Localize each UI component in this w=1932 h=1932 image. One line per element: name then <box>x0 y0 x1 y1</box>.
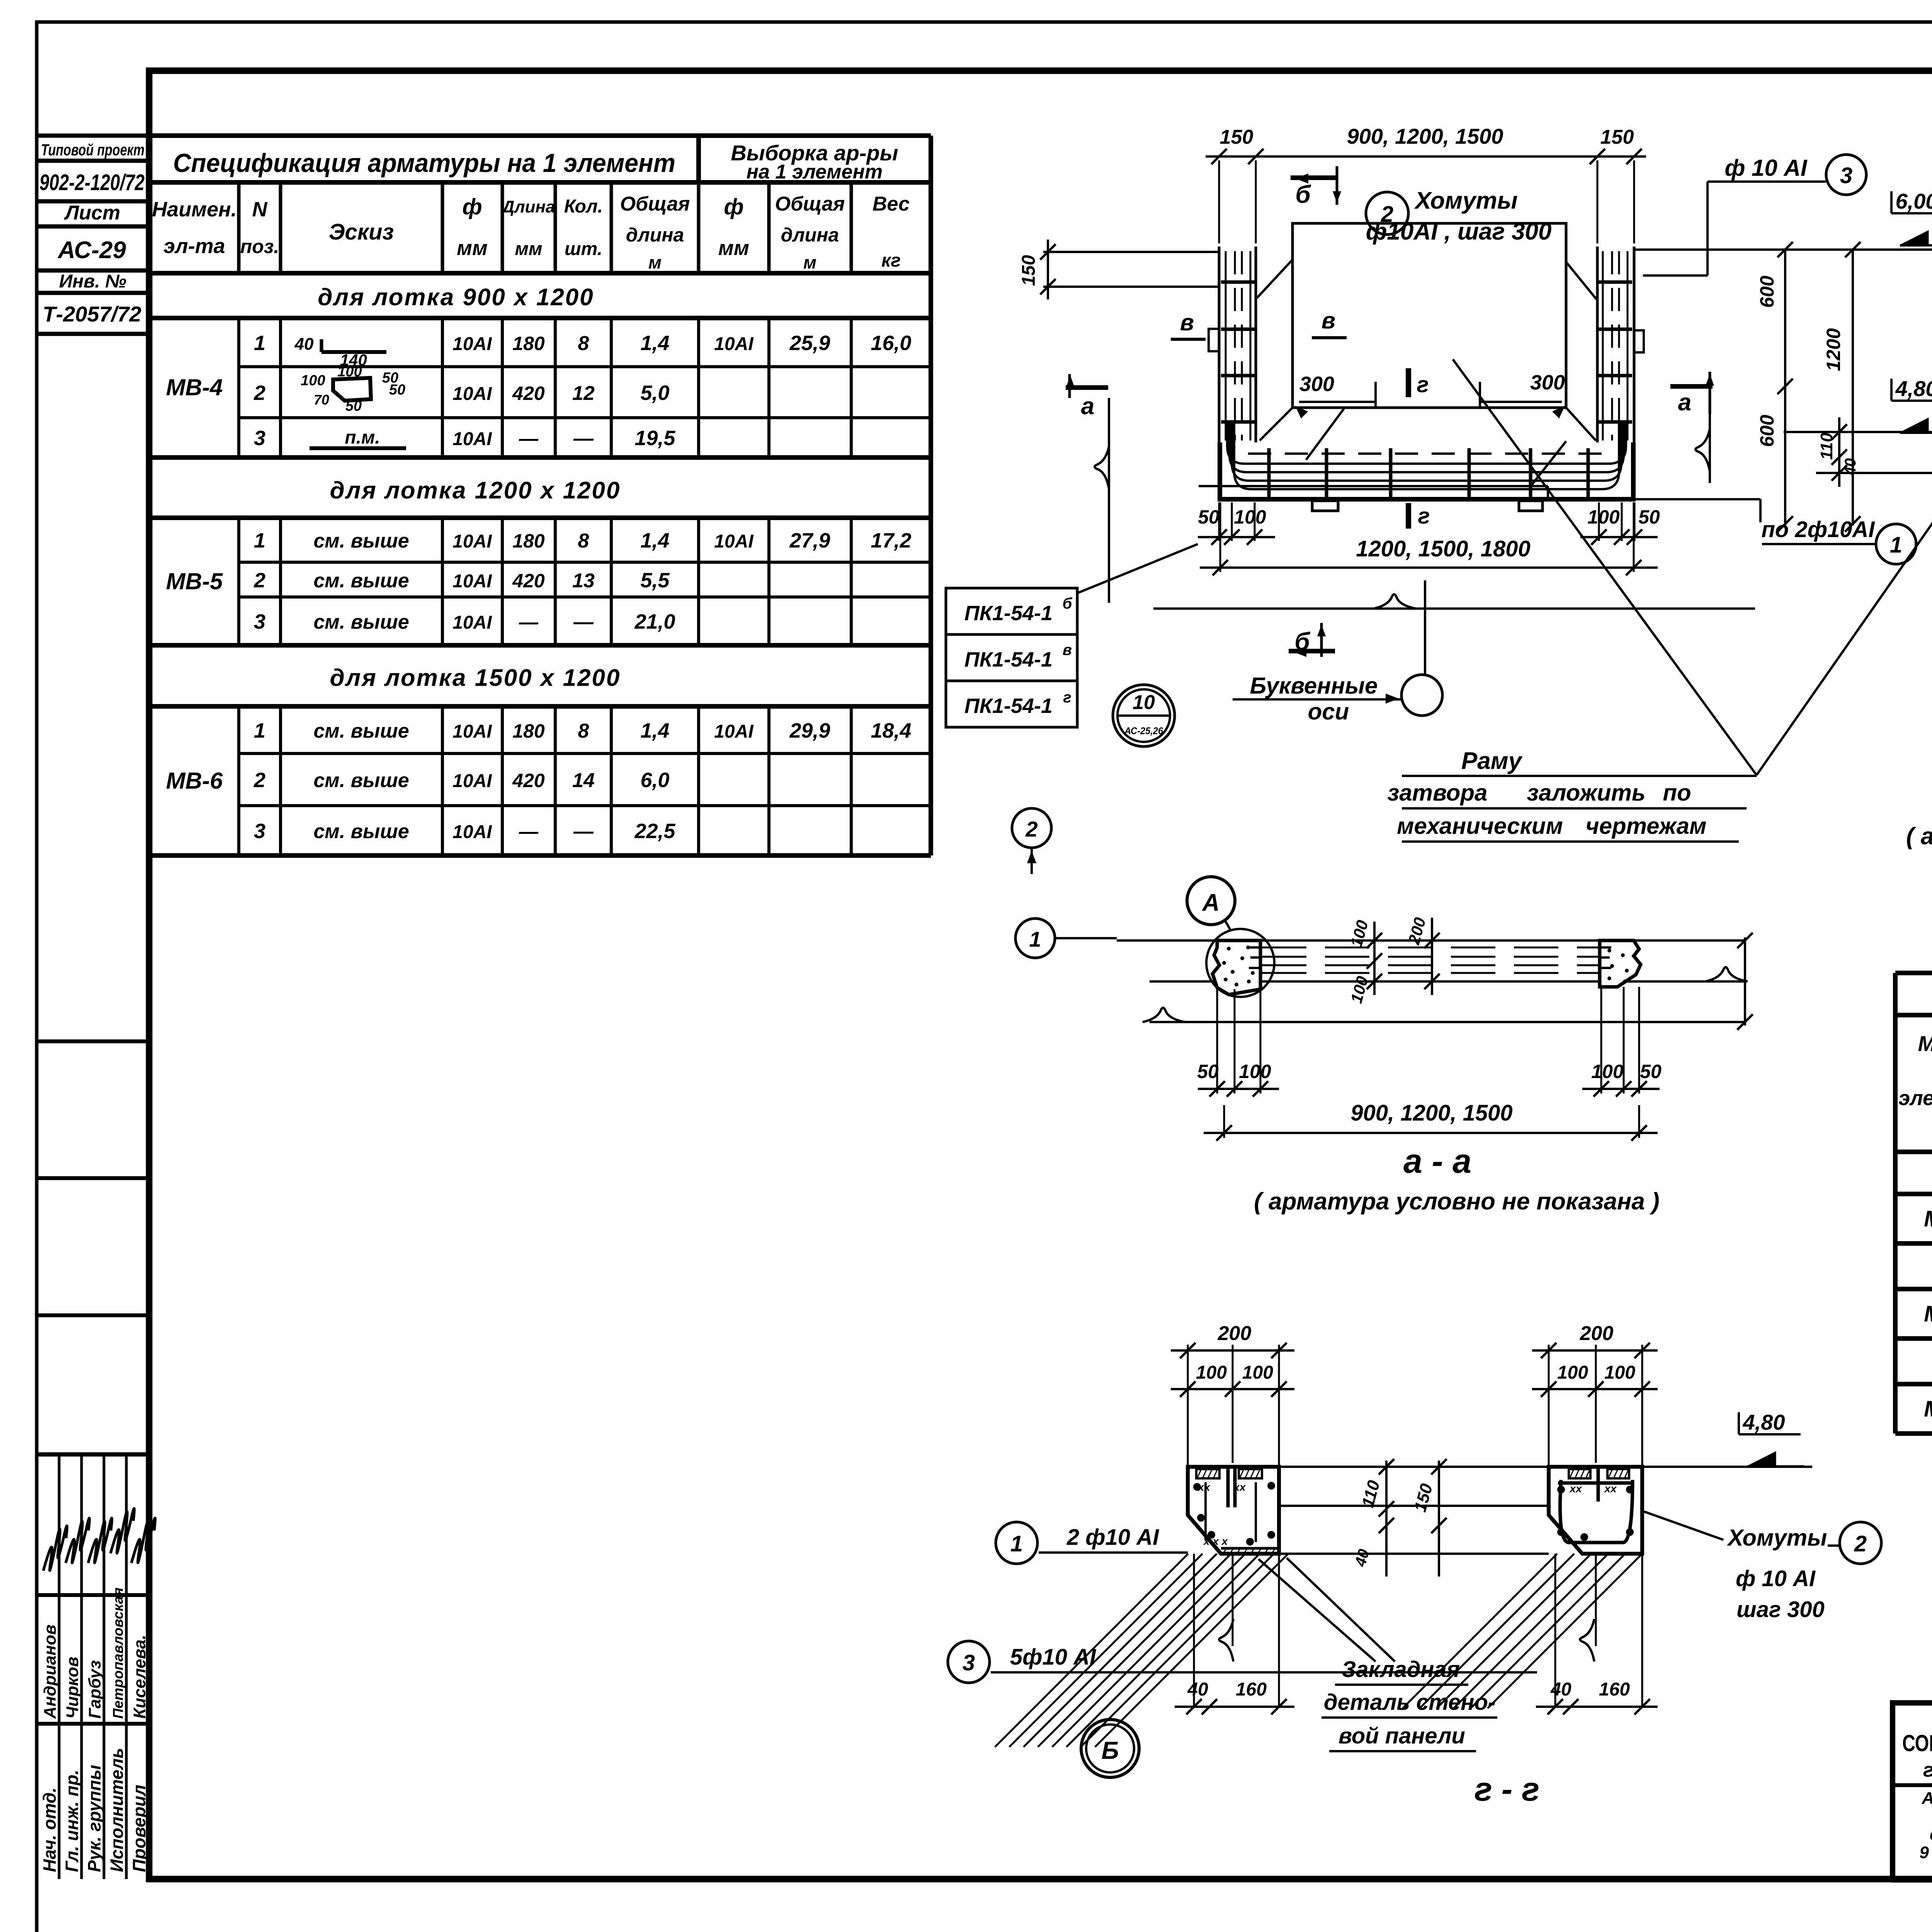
svg-text:150: 150 <box>1220 126 1253 148</box>
svg-text:3: 3 <box>254 427 265 450</box>
plan right wall stirrups <box>1598 281 1632 284</box>
svg-text:100: 100 <box>301 372 325 389</box>
svg-text:2: 2 <box>253 769 265 792</box>
plan long break line <box>1153 607 1755 610</box>
svg-text:100: 100 <box>1604 1362 1635 1383</box>
svg-text:902-2-120/72: 902-2-120/72 <box>39 170 145 195</box>
svg-text:ПК1-54-1: ПК1-54-1 <box>964 648 1053 671</box>
plan bottom dims 50-100 <box>1218 502 1220 541</box>
g-g pos1 2f10AI <box>996 1522 1037 1564</box>
svg-text:3: 3 <box>963 1650 975 1675</box>
svg-text:кг: кг <box>881 250 901 271</box>
svg-text:( арматура условно не по: ( арматура условно не показана ) <box>1254 1188 1659 1215</box>
svg-text:механическим: механическим <box>1397 813 1563 839</box>
dim chain 110-40 <box>1784 431 1932 433</box>
svg-text:п.м.: п.м. <box>345 427 380 448</box>
svg-text:2: 2 <box>253 569 265 592</box>
g-g pos3 5f10AI <box>948 1641 990 1683</box>
svg-text:см. выше: см. выше <box>313 820 409 843</box>
materials consumption table <box>1895 971 1932 975</box>
MB-4 sketch row2 plate <box>333 378 371 401</box>
level 6.00 line <box>1634 248 1932 251</box>
MB-5 rows <box>237 518 240 645</box>
svg-text:10АI: 10АI <box>452 531 492 552</box>
svg-text:г: г <box>1417 372 1429 397</box>
svg-text:100: 100 <box>1557 1362 1588 1383</box>
plan monolithic insert U bundle <box>1227 423 1626 464</box>
svg-text:ПК1-54-1: ПК1-54-1 <box>964 602 1053 625</box>
svg-text:3: 3 <box>254 820 265 843</box>
svg-text:МВ-6: МВ-6 <box>1924 1396 1932 1422</box>
svg-text:70: 70 <box>314 392 329 408</box>
svg-text:МВ-5: МВ-5 <box>166 568 223 594</box>
plan insert dashed axis <box>1248 452 1607 455</box>
svg-text:с размерами коридора: с размерами коридора <box>1930 1825 1932 1844</box>
svg-text:3: 3 <box>1840 163 1852 188</box>
svg-text:Буквенные: Буквенные <box>1250 673 1378 699</box>
svg-text:50: 50 <box>1638 506 1660 528</box>
g-g extension lines below <box>1193 1554 1195 1708</box>
svg-text:вой панели: вой панели <box>1338 1723 1465 1748</box>
svg-text:ПК1-54-1: ПК1-54-1 <box>964 694 1053 718</box>
svg-text:4,80: 4,80 <box>1743 1410 1785 1434</box>
a-a detail circle <box>1206 929 1274 997</box>
detail bubble A a-a <box>1187 877 1235 925</box>
svg-text:по 2ф10АI: по 2ф10АI <box>1761 517 1875 542</box>
svg-text:29,9: 29,9 <box>789 719 830 742</box>
plan insert bottom outline <box>1220 442 1633 499</box>
left stamp table <box>37 134 149 138</box>
svg-text:4,80: 4,80 <box>1895 376 1932 401</box>
svg-text:хх: хх <box>1197 1481 1211 1493</box>
svg-text:N: N <box>252 198 268 221</box>
svg-text:5,5: 5,5 <box>640 569 670 592</box>
plan lower reference lines <box>1199 485 1548 487</box>
detail bubble B g-g <box>1081 1719 1139 1777</box>
svg-text:1,4: 1,4 <box>640 529 669 552</box>
svg-text:шаг 300: шаг 300 <box>1736 1597 1825 1622</box>
svg-text:600: 600 <box>1756 415 1778 447</box>
svg-text:Хомуты: Хомуты <box>1727 1525 1827 1551</box>
svg-text:40: 40 <box>1187 1679 1208 1700</box>
svg-text:длина: длина <box>626 224 684 246</box>
svg-text:оси: оси <box>1308 699 1349 724</box>
svg-text:на 1 элемент: на 1 элемент <box>747 161 883 183</box>
plan insert bottom stirrups <box>1267 448 1271 498</box>
svg-text:—: — <box>519 428 539 449</box>
a-a mid dims <box>1373 922 1376 995</box>
svg-text:МВ-6: МВ-6 <box>166 768 223 794</box>
svg-text:10: 10 <box>1133 691 1155 714</box>
svg-text:Исполнитель: Исполнитель <box>107 1748 127 1872</box>
svg-text:эл-та: эл-та <box>163 235 225 258</box>
plan g axis mark upper <box>1406 368 1411 397</box>
big V leader lines <box>1453 359 1757 775</box>
svg-text:110: 110 <box>1817 432 1836 460</box>
svg-text:5,0: 5,0 <box>640 381 669 405</box>
svg-text:см. выше: см. выше <box>313 720 409 742</box>
svg-text:хх: хх <box>1604 1483 1617 1495</box>
svg-text:деталь стено-: деталь стено- <box>1324 1690 1495 1715</box>
svg-text:ф 10 АI: ф 10 АI <box>1736 1566 1816 1591</box>
svg-text:мм: мм <box>457 236 488 260</box>
svg-text:Нач. отд.: Нач. отд. <box>39 1787 60 1872</box>
svg-text:8: 8 <box>578 530 589 552</box>
svg-text:СОЮЗВОДОКАНАЛПРОЕКТ: СОЮЗВОДОКАНАЛПРОЕКТ <box>1902 1730 1932 1756</box>
svg-text:—: — <box>519 821 539 842</box>
plan insert feet <box>1312 501 1338 511</box>
svg-text:900, 1200, 1500: 900, 1200, 1500 <box>1347 124 1503 148</box>
svg-text:100: 100 <box>1591 1061 1624 1082</box>
svg-text:1: 1 <box>254 719 265 742</box>
plan left wall stirrups <box>1221 281 1255 284</box>
svg-text:—: — <box>573 611 594 633</box>
svg-text:10АI: 10АI <box>714 531 754 552</box>
svg-text:40: 40 <box>294 335 314 354</box>
svg-text:г - г: г - г <box>1475 1771 1539 1808</box>
svg-text:заложить: заложить <box>1527 780 1646 806</box>
svg-text:Петропавловская: Петропавловская <box>110 1587 126 1719</box>
svg-text:10АI: 10АI <box>452 384 492 404</box>
g-g beam lines between blocks <box>1279 1466 1549 1468</box>
svg-text:10АI: 10АI <box>452 771 492 791</box>
svg-text:см. выше: см. выше <box>313 611 409 633</box>
svg-text:1: 1 <box>254 332 265 355</box>
svg-text:а: а <box>1678 389 1691 416</box>
svg-text:2: 2 <box>1025 817 1037 841</box>
svg-text:Гл. инж. пр.: Гл. инж. пр. <box>62 1770 82 1872</box>
svg-text:Чирков: Чирков <box>63 1656 82 1719</box>
g-g left block top plates <box>1196 1469 1219 1478</box>
svg-text:а: а <box>1081 393 1094 420</box>
plan g axis mark lower <box>1406 503 1411 529</box>
svg-text:10АI: 10АI <box>452 721 492 742</box>
plan left 150 dimension <box>1043 251 1219 253</box>
reference bubble 10 AC-25-26 <box>1113 685 1175 747</box>
g-g right block dims <box>1532 1349 1658 1352</box>
svg-text:ф 10 АI: ф 10 АI <box>1725 155 1807 181</box>
a-a bottom dims 50-100 <box>1216 989 1218 1094</box>
plan frame corner leaders <box>1257 260 1293 298</box>
spec table column headers <box>237 182 241 273</box>
MB-4 rows <box>237 318 240 457</box>
svg-text:1: 1 <box>254 529 265 552</box>
svg-text:100: 100 <box>337 364 362 380</box>
svg-text:в: в <box>1321 308 1335 333</box>
svg-text:180: 180 <box>512 333 545 354</box>
svg-text:—: — <box>519 611 539 633</box>
svg-text:Инв. №: Инв. № <box>59 271 126 292</box>
svg-text:Б: Б <box>1101 1736 1119 1764</box>
plan view top dimension line <box>1206 155 1646 158</box>
g-g left embed block <box>1188 1467 1279 1554</box>
svg-text:12: 12 <box>572 382 595 405</box>
svg-text:1: 1 <box>1029 927 1041 951</box>
g-g hatch under right block <box>1403 1554 1557 1708</box>
a-a beam outline <box>1117 939 1745 942</box>
svg-text:19,5: 19,5 <box>634 427 675 450</box>
svg-text:150: 150 <box>1600 126 1634 148</box>
MB-6 rows <box>237 706 240 855</box>
svg-text:МВ-4: МВ-4 <box>1924 1206 1932 1231</box>
svg-text:200: 200 <box>1580 1322 1614 1345</box>
svg-text:1200: 1200 <box>1823 328 1844 371</box>
plan bottom dims 100-50 right <box>1598 502 1600 541</box>
svg-text:200: 200 <box>1218 1322 1252 1345</box>
svg-text:1: 1 <box>1010 1531 1023 1556</box>
svg-text:40: 40 <box>1550 1679 1571 1700</box>
svg-text:2: 2 <box>253 381 265 405</box>
svg-text:40: 40 <box>1842 458 1859 476</box>
svg-text:160: 160 <box>1599 1679 1630 1700</box>
signature table <box>37 1452 149 1457</box>
g-g dims 110-150-40 center <box>1385 1461 1388 1577</box>
svg-text:50: 50 <box>1640 1061 1662 1082</box>
svg-text:300: 300 <box>1530 371 1565 394</box>
svg-text:Раму: Раму <box>1461 748 1523 774</box>
svg-text:см. выше: см. выше <box>313 769 409 792</box>
svg-text:а - а: а - а <box>1403 1142 1471 1180</box>
svg-text:х х х: х х х <box>1203 1535 1228 1547</box>
svg-text:1,4: 1,4 <box>640 719 669 742</box>
svg-text:МВ-5: МВ-5 <box>1924 1301 1932 1327</box>
plan a section mark left <box>1066 385 1108 390</box>
svg-text:АС-25,26: АС-25,26 <box>1124 726 1163 736</box>
svg-text:Длина: Длина <box>500 197 555 216</box>
svg-text:Рук. группы: Рук. группы <box>84 1765 104 1872</box>
svg-text:420: 420 <box>512 383 545 404</box>
svg-text:16,0: 16,0 <box>871 332 911 355</box>
g-g hatch under left block <box>995 1554 1188 1747</box>
right dim chain 600-600 <box>1784 250 1786 526</box>
svg-text:14: 14 <box>572 769 595 792</box>
svg-text:Закладная: Закладная <box>1342 1657 1460 1682</box>
svg-text:160: 160 <box>1236 1679 1267 1700</box>
svg-text:420: 420 <box>512 770 545 791</box>
plan khomuty label <box>1366 192 1408 235</box>
svg-text:3: 3 <box>254 610 265 633</box>
svg-text:8: 8 <box>578 332 589 355</box>
svg-text:22,5: 22,5 <box>634 820 675 843</box>
plan gate frame rectangle <box>1293 223 1566 408</box>
g-g 40-160 dims <box>1175 1706 1294 1708</box>
svg-text:900, 1200, 1500: 900, 1200, 1500 <box>1350 1100 1512 1126</box>
PK panel labels <box>946 588 1077 634</box>
axes circle line <box>1424 580 1426 674</box>
svg-text:б: б <box>1295 180 1311 208</box>
svg-text:затвора: затвора <box>1388 780 1488 806</box>
section a-a axis bubbles <box>1012 808 1051 848</box>
svg-text:50: 50 <box>345 398 362 414</box>
right dim chain 1200 <box>1852 250 1854 526</box>
svg-text:Т-2057/72: Т-2057/72 <box>43 302 141 326</box>
plan wall closure tabs <box>1209 329 1219 351</box>
svg-text:Общая: Общая <box>620 193 690 215</box>
svg-text:Кол.: Кол. <box>564 196 603 217</box>
svg-text:Наимен.: Наимен. <box>152 198 237 221</box>
svg-text:б: б <box>1063 595 1073 612</box>
svg-text:см. выше: см. выше <box>313 530 409 552</box>
a-a right extent vertical <box>1744 937 1746 1026</box>
svg-text:50: 50 <box>389 382 405 398</box>
svg-text:м: м <box>803 252 816 272</box>
svg-text:100: 100 <box>1234 506 1266 528</box>
svg-text:150: 150 <box>1019 255 1039 286</box>
svg-text:100: 100 <box>1196 1362 1227 1383</box>
svg-text:в: в <box>1063 641 1072 658</box>
svg-text:Лист: Лист <box>64 202 121 224</box>
svg-text:10АI: 10АI <box>452 612 492 633</box>
svg-text:Андрианов: Андрианов <box>41 1624 60 1719</box>
svg-text:Аэротенки - смесители: Аэротенки - смесители <box>1922 1789 1932 1808</box>
svg-text:13: 13 <box>572 570 595 592</box>
svg-text:Хомуты: Хомуты <box>1414 187 1517 214</box>
rebar specification table <box>150 133 931 138</box>
svg-text:50: 50 <box>1197 1061 1219 1082</box>
svg-text:хх: хх <box>1569 1483 1582 1495</box>
svg-text:для лотка 1500 х 12: для лотка 1500 х 1200 <box>330 665 621 691</box>
svg-text:Общая: Общая <box>775 193 845 215</box>
svg-text:10АI: 10АI <box>452 571 492 592</box>
svg-text:элемента: элемента <box>1898 1087 1932 1110</box>
svg-text:—: — <box>573 820 594 843</box>
svg-text:Спецификация арматуры на 1 э: Спецификация арматуры на 1 элемент <box>173 148 675 178</box>
a-a right end block <box>1600 940 1641 987</box>
svg-text:см. выше: см. выше <box>313 570 409 592</box>
svg-text:600: 600 <box>1756 276 1778 308</box>
a-a bottom dims 100-50 <box>1600 987 1602 1094</box>
svg-text:100: 100 <box>1242 1362 1273 1383</box>
svg-text:мм: мм <box>718 236 749 260</box>
svg-text:Марка: Марка <box>1918 1031 1932 1056</box>
svg-text:г. Москва: г. Москва <box>1923 1759 1932 1781</box>
left column empty cells <box>37 1039 149 1043</box>
svg-text:50: 50 <box>1198 506 1219 528</box>
svg-text:м: м <box>648 252 662 272</box>
svg-text:ф10АI , шаг 300: ф10АI , шаг 300 <box>1366 218 1552 245</box>
a-a left end block <box>1213 940 1260 995</box>
g-g left block dims <box>1171 1349 1294 1352</box>
a-a longitudinal rebars <box>1262 947 1599 949</box>
svg-text:хх: хх <box>1233 1481 1246 1493</box>
svg-text:180: 180 <box>512 530 545 552</box>
svg-text:5ф10 АI: 5ф10 АI <box>1010 1645 1097 1670</box>
svg-text:по: по <box>1663 780 1691 806</box>
signatures scribbles <box>43 1526 67 1571</box>
svg-text:Проверил: Проверил <box>129 1785 149 1872</box>
title block <box>1893 1703 1932 1880</box>
svg-text:г: г <box>1063 689 1071 706</box>
svg-text:АС-29: АС-29 <box>57 237 126 264</box>
svg-text:мм: мм <box>515 239 542 259</box>
po 2f10AI label <box>1759 499 1762 522</box>
svg-text:100: 100 <box>1587 506 1620 528</box>
svg-text:180: 180 <box>512 720 545 742</box>
svg-text:для лотка 1200 х 12: для лотка 1200 х 1200 <box>330 477 621 504</box>
svg-text:для лотка 900 х 1: для лотка 900 х 1200 <box>318 284 594 311</box>
svg-text:поз.: поз. <box>240 236 279 257</box>
svg-text:Эскиз: Эскиз <box>329 219 394 245</box>
g-g right block stirrup <box>1560 1480 1633 1543</box>
svg-text:в: в <box>1180 310 1194 335</box>
g-g left block anchors <box>1226 1467 1230 1507</box>
svg-text:10АI: 10АI <box>452 822 492 842</box>
a-a overall dim <box>1204 1132 1658 1134</box>
svg-text:1200, 1500, 1800: 1200, 1500, 1800 <box>1356 536 1531 561</box>
svg-text:Гарбуз: Гарбуз <box>85 1660 104 1719</box>
svg-text:10АI: 10АI <box>452 334 492 354</box>
svg-text:17,2: 17,2 <box>871 529 911 552</box>
svg-text:420: 420 <box>512 570 545 592</box>
g-g right embed block <box>1549 1467 1642 1554</box>
plan a section mark right <box>1670 384 1713 389</box>
svg-text:ф: ф <box>724 194 743 219</box>
svg-text:1,4: 1,4 <box>640 332 669 355</box>
svg-text:10АI: 10АI <box>714 334 754 354</box>
plan left wall panel <box>1218 247 1221 442</box>
svg-text:длина: длина <box>781 224 839 246</box>
svg-text:г: г <box>1418 503 1430 529</box>
svg-text:чертежам: чертежам <box>1586 813 1707 839</box>
svg-text:шт.: шт. <box>565 239 602 259</box>
svg-text:( арматура условно не: ( арматура условно не <box>1906 823 1932 850</box>
svg-text:МВ-4: МВ-4 <box>166 374 223 400</box>
plan overall dim 1200-1500-1800 <box>1200 566 1658 569</box>
svg-text:6,00: 6,00 <box>1896 189 1932 213</box>
svg-text:—: — <box>573 427 594 450</box>
svg-text:6,0: 6,0 <box>640 769 669 792</box>
svg-text:300: 300 <box>1299 372 1334 396</box>
svg-text:Типовой проект: Типовой проект <box>41 141 145 159</box>
plan right wall panel <box>1596 247 1599 442</box>
svg-text:21,0: 21,0 <box>634 610 675 633</box>
svg-text:27,9: 27,9 <box>789 529 830 552</box>
svg-text:2 ф10 АI: 2 ф10 АI <box>1066 1525 1160 1550</box>
g-g right block top plates <box>1569 1469 1590 1478</box>
svg-text:2: 2 <box>1854 1531 1867 1556</box>
svg-text:1: 1 <box>1890 532 1902 558</box>
svg-text:9 х 5, 2 х 120 из сборного: 9 х 5, 2 х 120 из сборного <box>1919 1843 1932 1862</box>
svg-text:А: А <box>1202 889 1220 916</box>
svg-text:ф: ф <box>462 194 482 219</box>
svg-text:Киселева.: Киселева. <box>130 1635 149 1719</box>
svg-text:Вес: Вес <box>872 193 910 215</box>
svg-text:10АI: 10АI <box>452 429 492 449</box>
svg-text:18,4: 18,4 <box>871 719 911 742</box>
svg-text:10АI: 10АI <box>714 721 754 742</box>
svg-text:100: 100 <box>1239 1061 1271 1082</box>
svg-text:25,9: 25,9 <box>789 332 830 355</box>
svg-text:8: 8 <box>578 720 589 742</box>
